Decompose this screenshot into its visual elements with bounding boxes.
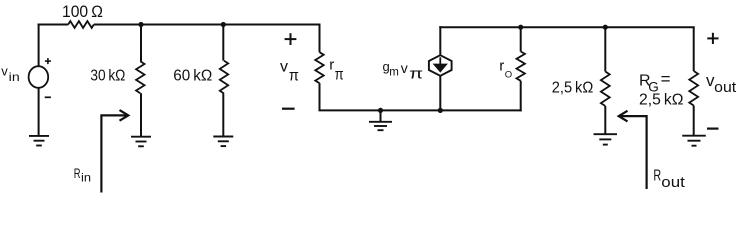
resistor R=100 ohm (horizontal zigzag)	[68, 21, 94, 28]
node dot 30k top	[138, 22, 143, 27]
wire vin bottom lead	[38, 88, 40, 136]
svg-text:100 Ω: 100 Ω	[62, 2, 103, 21]
label R_out	[653, 168, 685, 192]
node dot 2.5k top	[603, 25, 608, 30]
label 100 ohm	[62, 2, 103, 21]
svg-text:2,5 kΩ: 2,5 kΩ	[639, 92, 684, 109]
wire r_o bottom lead	[520, 81, 522, 112]
wire r_pi bottom lead	[319, 83, 321, 110]
svg-text:rO: rO	[499, 57, 512, 80]
arrow R_in (input resistance pointer)	[101, 110, 128, 192]
arrow R_out (output resistance pointer)	[619, 111, 647, 189]
resistor r_pi (vertical zigzag)	[315, 52, 323, 83]
plus sign of v_out	[707, 33, 718, 44]
ground of R_G	[682, 136, 706, 146]
svg-text:30 kΩ: 30 kΩ	[90, 68, 125, 85]
svg-text:2,5 kΩ: 2,5 kΩ	[552, 80, 594, 97]
svg-text:60 kΩ: 60 kΩ	[173, 68, 212, 85]
resistor 30 kOhm (vertical zigzag)	[136, 61, 144, 93]
wire R_G top lead	[693, 27, 695, 71]
minus sign of vin	[45, 96, 51, 98]
label r_o	[499, 57, 512, 80]
ground of bottom wire	[369, 122, 392, 130]
svg-text:Rin: Rin	[74, 165, 91, 184]
label gm v_pi	[383, 59, 424, 82]
node dot dependent-source bottom	[438, 108, 443, 113]
wire vin top lead	[38, 24, 40, 67]
voltage source vin (circle)	[29, 66, 49, 88]
plus sign of vin	[45, 58, 51, 64]
label 30 kOhm	[90, 68, 125, 85]
label 60 kOhm	[173, 68, 212, 85]
wire bottom ground stem	[380, 110, 382, 121]
wire top-left from 100-ohm to r_pi corner	[94, 24, 321, 26]
ground of 60k	[213, 137, 233, 147]
dependent current source gm*v_pi (hexagon)	[429, 55, 452, 76]
label 2.5 kOhm	[552, 80, 594, 97]
resistor 60 kOhm (vertical zigzag)	[220, 61, 228, 94]
ground of 30k	[131, 137, 151, 147]
wire 60k bottom lead	[222, 94, 224, 137]
wire gm source top lead	[439, 26, 441, 55]
wire r_o top lead	[520, 27, 522, 51]
label vin	[1, 63, 19, 84]
wire bottom middle	[319, 109, 522, 111]
node dot bottom-ground tap	[378, 108, 383, 113]
resistor 2.5 kOhm (vertical zigzag)	[601, 72, 610, 107]
svg-text:vout: vout	[706, 71, 737, 96]
wire 30k top lead	[140, 25, 142, 62]
minus sign of v_pi	[282, 108, 295, 110]
resistor r_o (vertical zigzag)	[517, 52, 525, 81]
wire top-right	[439, 26, 694, 28]
node dot r_o top	[518, 25, 523, 30]
svg-text:Rout: Rout	[653, 168, 685, 192]
label R_in	[74, 165, 91, 184]
wire 60k top lead	[222, 25, 224, 61]
ground of 2.5k	[594, 134, 618, 144]
svg-text:rπ: rπ	[329, 57, 343, 84]
wire gm source bottom lead	[439, 76, 441, 111]
ground of vin	[29, 136, 49, 146]
plus sign of v_pi	[285, 33, 297, 45]
arrow inside gm source	[433, 57, 448, 72]
wire top-left from vin to 100-ohm resistor	[38, 24, 69, 26]
wire 30k bottom lead	[140, 93, 142, 137]
wire 2.5k top lead	[604, 27, 606, 71]
label v_out	[706, 71, 737, 96]
wire R_G bottom lead	[693, 106, 695, 136]
svg-text:gmvπ: gmvπ	[383, 59, 424, 82]
minus sign of v_out	[707, 128, 719, 130]
node dot 60k top	[221, 22, 226, 27]
wire r_pi top lead	[319, 25, 321, 53]
label r_pi	[329, 57, 343, 84]
label R_G = 2.5 kOhm	[639, 70, 684, 109]
resistor R_G 2.5 kOhm (vertical zigzag)	[689, 71, 698, 106]
wire 2.5k bottom lead	[604, 106, 606, 134]
svg-text:vin: vin	[1, 63, 19, 84]
label v_pi	[280, 59, 299, 85]
svg-text:vπ: vπ	[280, 59, 299, 85]
